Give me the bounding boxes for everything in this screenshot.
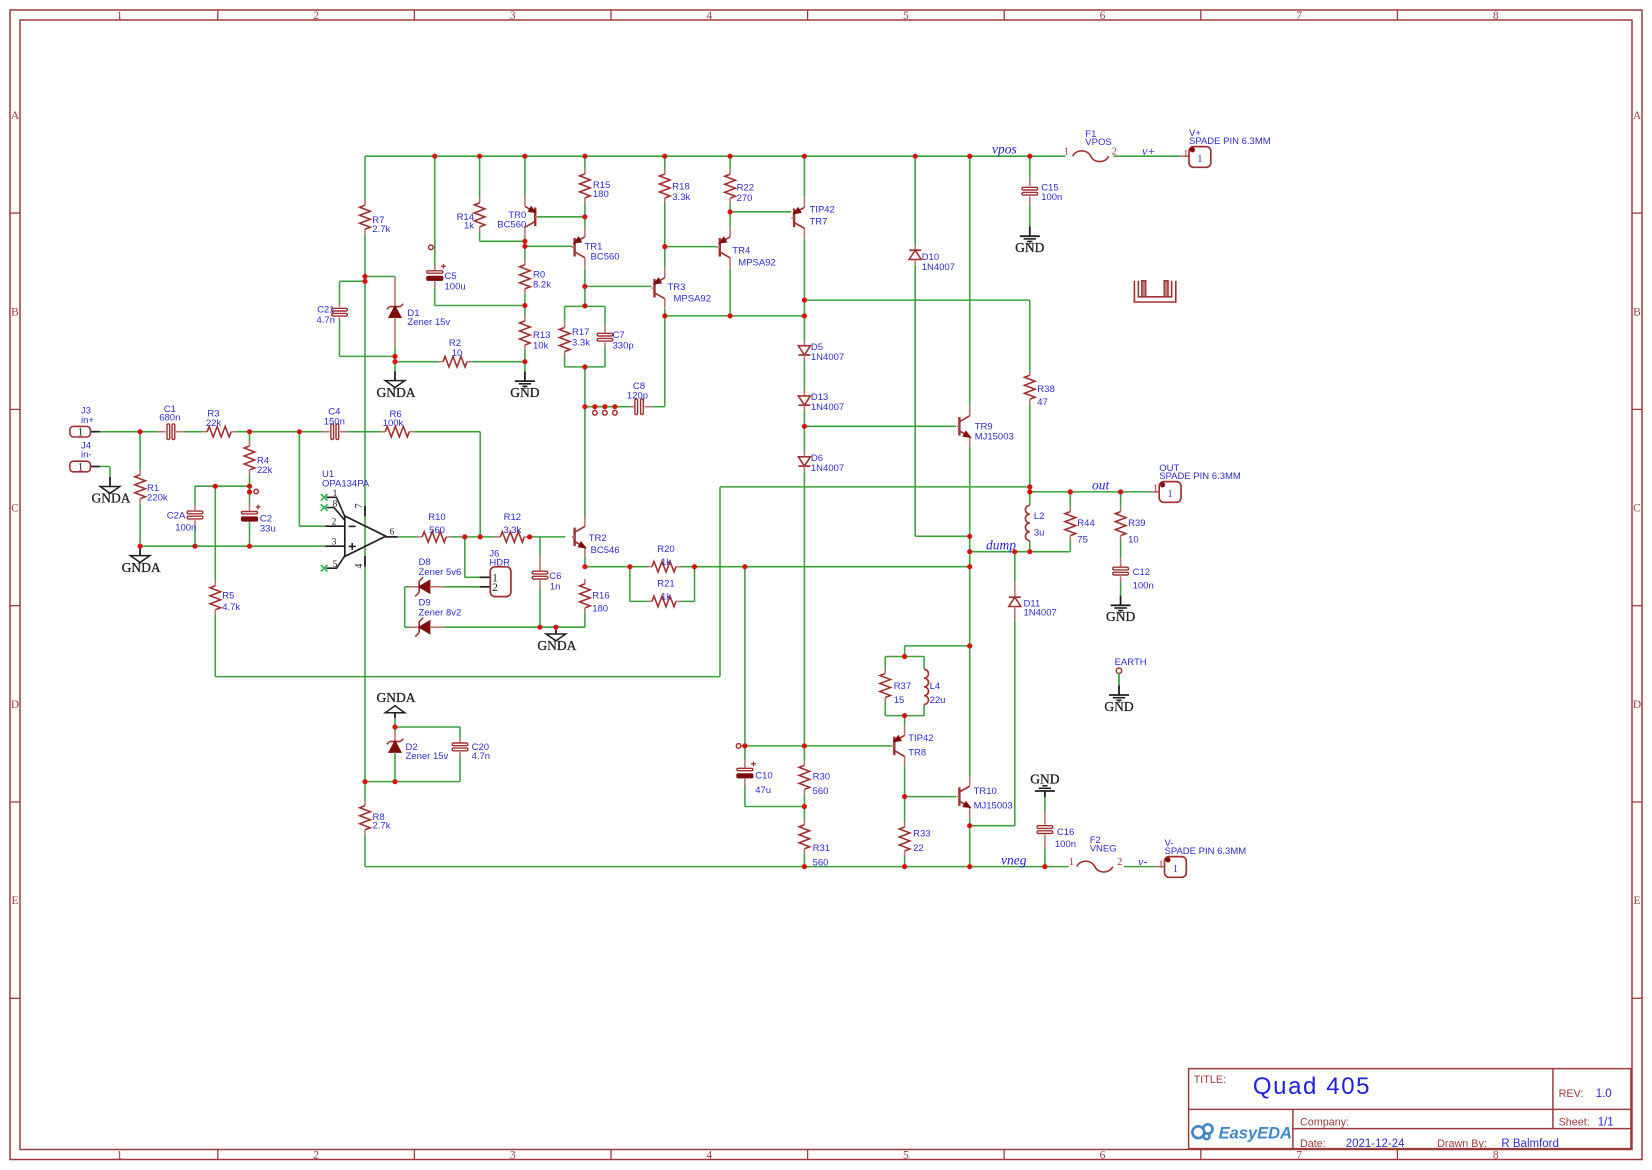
transistor TR0 xyxy=(497,196,538,237)
svg-text:1N4007: 1N4007 xyxy=(811,402,844,413)
resistor R2 xyxy=(438,338,472,367)
wire xyxy=(100,466,110,468)
wire xyxy=(346,431,381,433)
svg-text:R31: R31 xyxy=(813,843,830,854)
svg-text:BC546: BC546 xyxy=(591,545,620,556)
wire xyxy=(1029,487,1031,492)
wire xyxy=(884,657,886,669)
junction xyxy=(967,823,972,828)
wire xyxy=(194,526,196,546)
wire xyxy=(524,362,526,372)
wire xyxy=(665,246,717,248)
resistor R44 xyxy=(1065,507,1095,546)
junction xyxy=(602,404,607,409)
svg-text:GNDA: GNDA xyxy=(377,690,416,705)
svg-text:10: 10 xyxy=(1128,535,1139,546)
wire xyxy=(1014,622,1016,826)
wire xyxy=(923,657,925,670)
wire xyxy=(720,486,1030,488)
svg-text:1.0: 1.0 xyxy=(1596,1088,1612,1100)
svg-text:dump: dump xyxy=(986,538,1016,553)
svg-text:560: 560 xyxy=(813,858,829,869)
svg-text:vneg: vneg xyxy=(1001,852,1027,867)
svg-text:C7: C7 xyxy=(613,330,625,341)
resistor R31 xyxy=(799,820,830,869)
wire xyxy=(729,156,731,169)
wire xyxy=(803,471,805,746)
svg-text:HDR: HDR xyxy=(489,558,510,569)
svg-text:R10: R10 xyxy=(428,512,445,523)
svg-text:1: 1 xyxy=(117,1149,123,1161)
wire xyxy=(970,551,1071,553)
svg-text:8: 8 xyxy=(1493,10,1499,22)
svg-text:1: 1 xyxy=(1183,149,1188,160)
heatsink symbol xyxy=(1134,281,1175,302)
diode D6 xyxy=(798,452,844,474)
wire xyxy=(394,718,396,727)
svg-text:SPADE PIN 6.3MM: SPADE PIN 6.3MM xyxy=(1165,846,1247,857)
junction xyxy=(728,209,733,214)
wire xyxy=(365,781,460,783)
wire xyxy=(394,727,396,732)
svg-text:47: 47 xyxy=(1037,397,1048,408)
junction xyxy=(902,654,907,659)
svg-text:2: 2 xyxy=(313,10,319,22)
wire xyxy=(585,566,647,568)
svg-text:v+: v+ xyxy=(1142,144,1155,158)
wire xyxy=(584,407,586,517)
wire xyxy=(139,432,141,470)
svg-text:A: A xyxy=(1633,110,1642,122)
wire xyxy=(364,281,366,781)
fuse F1 xyxy=(1064,129,1117,162)
wire xyxy=(1029,492,1031,506)
svg-text:6: 6 xyxy=(1100,10,1106,22)
wire xyxy=(451,536,495,538)
wire xyxy=(298,432,300,527)
wire xyxy=(236,431,324,433)
svg-text:Zener 5v6: Zener 5v6 xyxy=(419,567,462,578)
svg-text:2: 2 xyxy=(1112,146,1117,157)
svg-text:10k: 10k xyxy=(533,341,549,352)
svg-text:2: 2 xyxy=(1117,857,1122,868)
svg-text:5: 5 xyxy=(903,1149,909,1161)
svg-text:1N4007: 1N4007 xyxy=(922,262,955,273)
resistor R8 xyxy=(360,801,391,835)
svg-text:R5: R5 xyxy=(222,591,234,602)
wire xyxy=(1029,404,1031,487)
svg-text:6: 6 xyxy=(1100,1149,1106,1161)
connector V- (spade pin) xyxy=(1165,857,1187,878)
wire xyxy=(745,806,805,808)
svg-text:1: 1 xyxy=(78,427,84,439)
svg-text:100k: 100k xyxy=(383,418,404,429)
junction xyxy=(802,804,807,809)
no-connect flag xyxy=(736,744,741,749)
svg-text:C10: C10 xyxy=(755,771,772,782)
svg-text:D: D xyxy=(1633,699,1641,711)
svg-text:BC560: BC560 xyxy=(497,220,526,231)
junction xyxy=(582,284,587,289)
svg-text:OPA134PA: OPA134PA xyxy=(322,478,370,489)
wire xyxy=(564,357,566,367)
capacitor C7 xyxy=(597,326,633,351)
wire xyxy=(1014,552,1016,582)
svg-text:C6: C6 xyxy=(549,571,561,582)
svg-text:8.2k: 8.2k xyxy=(533,280,551,291)
wire xyxy=(885,715,924,717)
svg-text:6: 6 xyxy=(390,528,395,538)
connector J3 (in+) xyxy=(70,406,94,439)
svg-text:4: 4 xyxy=(354,564,365,569)
junction xyxy=(138,429,143,434)
junction xyxy=(192,544,197,549)
svg-text:Zener 15v: Zener 15v xyxy=(407,317,450,328)
wire xyxy=(803,360,805,391)
wire xyxy=(364,835,366,867)
svg-text:3u: 3u xyxy=(1034,528,1045,539)
svg-text:TR10: TR10 xyxy=(974,786,997,797)
svg-text:L4: L4 xyxy=(930,681,941,692)
wire xyxy=(1044,848,1046,866)
junction xyxy=(1027,154,1032,159)
wire xyxy=(539,537,541,556)
wire xyxy=(905,645,970,647)
wire xyxy=(803,746,805,761)
pin wire xyxy=(1014,581,1016,592)
ground GND xyxy=(510,371,539,400)
wire xyxy=(585,406,630,408)
junction xyxy=(592,404,597,409)
wire xyxy=(584,367,586,407)
svg-text:GND: GND xyxy=(1015,240,1044,255)
junction xyxy=(392,779,397,784)
wire xyxy=(445,586,480,588)
wire xyxy=(584,557,586,566)
junction xyxy=(477,154,482,159)
junction xyxy=(728,313,733,318)
resistor R15 xyxy=(580,169,611,203)
wire xyxy=(629,567,631,602)
capacitor C21 xyxy=(317,304,348,326)
svg-text:7: 7 xyxy=(354,503,365,508)
wire xyxy=(479,432,481,537)
pin wire xyxy=(480,586,491,588)
wire xyxy=(214,615,216,677)
junction xyxy=(662,313,667,318)
svg-text:1: 1 xyxy=(117,10,123,22)
svg-text:8: 8 xyxy=(1493,1149,1499,1161)
pin wire xyxy=(90,466,100,468)
wire xyxy=(1114,155,1181,157)
wire xyxy=(1120,582,1122,596)
svg-text:560: 560 xyxy=(813,786,829,797)
wire xyxy=(140,545,325,547)
svg-text:C5: C5 xyxy=(445,271,457,282)
svg-text:BC560: BC560 xyxy=(591,252,620,263)
pin wire xyxy=(1156,866,1165,868)
wire xyxy=(445,626,585,628)
svg-text:560: 560 xyxy=(429,525,445,536)
zener diode D1 xyxy=(387,277,451,347)
svg-text:330p: 330p xyxy=(613,341,634,352)
wire xyxy=(524,350,526,362)
wire xyxy=(249,486,251,492)
junction xyxy=(582,154,587,159)
resistor R22 xyxy=(725,169,754,204)
junction xyxy=(522,303,527,308)
svg-text:47u: 47u xyxy=(755,785,771,796)
wire xyxy=(719,487,721,677)
svg-text:EasyEDA: EasyEDA xyxy=(1219,1125,1292,1143)
svg-text:R33: R33 xyxy=(913,829,930,840)
svg-text:GND: GND xyxy=(1106,609,1135,624)
svg-text:B: B xyxy=(11,306,19,318)
wire xyxy=(404,587,406,627)
svg-text:VPOS: VPOS xyxy=(1085,137,1111,148)
wire xyxy=(803,300,805,316)
wire xyxy=(664,203,666,268)
svg-text:3.3k: 3.3k xyxy=(572,338,590,349)
wire xyxy=(665,315,805,317)
junction xyxy=(967,564,972,569)
resistor R6 xyxy=(380,409,414,437)
wire xyxy=(730,211,791,213)
zener diode D9 xyxy=(409,598,461,637)
svg-text:4.7n: 4.7n xyxy=(317,315,336,326)
capacitor C10 (electrolytic) xyxy=(737,760,773,796)
svg-text:R16: R16 xyxy=(592,591,609,602)
junction xyxy=(802,424,807,429)
svg-text:2021-12-24: 2021-12-24 xyxy=(1346,1138,1405,1150)
wire xyxy=(459,756,461,781)
svg-text:SPADE PIN 6.3MM: SPADE PIN 6.3MM xyxy=(1189,136,1271,147)
wire xyxy=(434,288,436,306)
wire xyxy=(804,425,956,427)
wire xyxy=(744,746,746,760)
junction xyxy=(247,429,252,434)
resistor R37 xyxy=(880,669,911,707)
resistor R17 xyxy=(559,323,590,357)
svg-text:1: 1 xyxy=(1064,146,1069,157)
svg-text:TR7: TR7 xyxy=(810,217,828,228)
wire xyxy=(394,362,396,372)
pin wire xyxy=(1014,612,1016,622)
wire xyxy=(249,521,251,546)
junction xyxy=(627,564,632,569)
wire xyxy=(524,156,526,196)
junction xyxy=(522,244,527,249)
junction xyxy=(967,549,972,554)
wire xyxy=(664,316,666,407)
svg-text:Company:: Company: xyxy=(1300,1117,1349,1129)
wire xyxy=(364,234,366,276)
resistor R33 xyxy=(899,822,930,856)
junction xyxy=(802,743,807,748)
svg-text:1n: 1n xyxy=(550,582,561,593)
junction xyxy=(913,154,918,159)
transistor TR7 xyxy=(791,197,804,238)
svg-text:220k: 220k xyxy=(147,493,168,504)
wire xyxy=(365,866,1069,868)
wire xyxy=(395,361,438,363)
junction xyxy=(392,359,397,364)
inductor L2 xyxy=(1025,505,1044,540)
wire xyxy=(414,431,480,433)
junction xyxy=(1027,549,1032,554)
capacitor C4 xyxy=(321,424,348,440)
wire xyxy=(584,613,586,627)
wire xyxy=(249,432,251,441)
wire xyxy=(653,406,665,408)
junction xyxy=(1027,484,1032,489)
svg-text:1N4007: 1N4007 xyxy=(1024,608,1057,619)
junction xyxy=(902,794,907,799)
wire xyxy=(394,346,396,356)
wire xyxy=(1029,300,1031,370)
svg-text:180: 180 xyxy=(593,189,609,200)
svg-text:SPADE PIN 6.3MM: SPADE PIN 6.3MM xyxy=(1159,471,1241,482)
wire xyxy=(1150,491,1152,493)
svg-text:4.7n: 4.7n xyxy=(472,751,491,762)
wire xyxy=(630,600,647,602)
wire xyxy=(1124,866,1156,868)
junction xyxy=(432,154,437,159)
wire xyxy=(803,316,805,341)
svg-text:TITLE:: TITLE: xyxy=(1194,1074,1226,1086)
junction xyxy=(247,484,252,489)
svg-text:C16: C16 xyxy=(1057,827,1074,838)
wire xyxy=(904,646,906,657)
junction xyxy=(802,313,807,318)
wire xyxy=(395,726,460,728)
wire xyxy=(694,567,696,602)
wire xyxy=(681,566,695,568)
wire xyxy=(183,431,202,433)
resistor R39 xyxy=(1115,507,1145,546)
wire xyxy=(584,203,586,227)
EasyEDA logo xyxy=(1192,1124,1292,1142)
svg-text:1: 1 xyxy=(1197,154,1202,165)
svg-text:C2A: C2A xyxy=(167,511,186,522)
svg-text:TR8: TR8 xyxy=(908,748,926,759)
wire xyxy=(394,356,396,361)
svg-text:1: 1 xyxy=(1158,859,1163,870)
wire xyxy=(538,216,585,218)
junction xyxy=(967,534,972,539)
svg-text:REV:: REV: xyxy=(1559,1088,1584,1100)
transistor TR10 xyxy=(957,776,1013,817)
ground GNDA xyxy=(92,477,131,506)
svg-text:E: E xyxy=(1633,895,1640,907)
wire xyxy=(884,703,886,716)
svg-text:22u: 22u xyxy=(930,695,946,706)
inductor L4 xyxy=(924,669,945,706)
wire xyxy=(479,232,481,241)
svg-text:R21: R21 xyxy=(657,579,674,590)
junction xyxy=(582,564,587,569)
resistor R18 xyxy=(660,169,691,203)
wire xyxy=(1044,797,1046,812)
wire xyxy=(524,237,526,259)
wire xyxy=(299,525,325,527)
junction xyxy=(1012,549,1017,554)
resistor R30 xyxy=(799,760,830,797)
svg-text:R38: R38 xyxy=(1037,384,1054,395)
diode D11 xyxy=(1009,592,1057,618)
junction xyxy=(612,404,617,409)
ground GND xyxy=(1106,596,1135,625)
fuse F2 xyxy=(1069,835,1122,872)
pin wire xyxy=(1180,155,1189,157)
no-connect flag xyxy=(429,245,434,250)
svg-text:1k: 1k xyxy=(661,592,671,603)
wire xyxy=(803,794,805,806)
resistor R10 xyxy=(417,512,451,542)
wire xyxy=(803,239,805,300)
connector V+ (spade pin) xyxy=(1189,147,1211,168)
no-connect flag xyxy=(254,489,259,494)
svg-text:TR4: TR4 xyxy=(732,246,750,257)
svg-text:680n: 680n xyxy=(159,413,180,424)
op-amp U1 (OPA134PA) xyxy=(321,469,398,572)
svg-text:4: 4 xyxy=(706,1149,712,1161)
svg-text:22: 22 xyxy=(913,843,924,854)
junction xyxy=(742,743,747,748)
transistor TR9 xyxy=(957,406,1014,447)
svg-text:4: 4 xyxy=(706,10,712,22)
wire xyxy=(804,299,1029,301)
diode D13 xyxy=(798,391,844,413)
wire xyxy=(479,156,481,198)
wire xyxy=(604,306,606,326)
svg-text:22k: 22k xyxy=(206,418,222,429)
resistor R3 xyxy=(202,409,236,438)
wire xyxy=(1029,541,1031,552)
junction xyxy=(522,359,527,364)
wire xyxy=(464,537,466,577)
junction xyxy=(362,779,367,784)
ground GNDA xyxy=(537,627,576,653)
wire xyxy=(194,486,196,504)
wire xyxy=(923,705,925,716)
svg-text:7: 7 xyxy=(1296,10,1302,22)
junction xyxy=(247,544,252,549)
resistor R4 xyxy=(244,441,272,476)
junction xyxy=(297,429,302,434)
wire xyxy=(465,576,480,578)
junction xyxy=(1068,489,1073,494)
svg-text:TR3: TR3 xyxy=(668,282,686,293)
wire xyxy=(904,856,906,867)
capacitor C20 xyxy=(452,739,490,762)
capacitor C2 (electrolytic) xyxy=(241,503,276,534)
wire xyxy=(565,366,605,368)
capacitor C16 xyxy=(1037,812,1076,850)
svg-text:4.7k: 4.7k xyxy=(222,602,240,613)
svg-text:C: C xyxy=(1633,503,1641,515)
junction xyxy=(662,244,667,249)
svg-text:7: 7 xyxy=(1296,1149,1302,1161)
svg-text:R12: R12 xyxy=(504,512,521,523)
junction xyxy=(902,713,907,718)
junction xyxy=(1042,864,1047,869)
wire xyxy=(434,156,436,264)
svg-text:R13: R13 xyxy=(533,330,550,341)
wire xyxy=(744,786,746,807)
junction xyxy=(362,279,367,284)
svg-text:1k: 1k xyxy=(464,221,474,232)
